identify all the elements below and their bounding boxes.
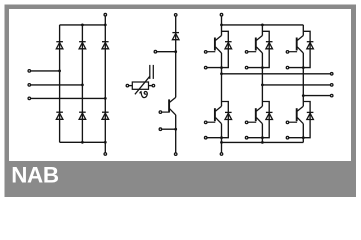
node rectifier DC- rail junction: [81, 141, 84, 144]
node rectifier DC+ stub junction: [104, 24, 107, 27]
terminal AC input L1: [28, 70, 31, 73]
terminal aux emitter E22: [245, 136, 248, 139]
terminal inverter DC+: [220, 13, 223, 16]
thermistor sense lead a: [149, 65, 151, 79]
wire AC input L3: [31, 97, 106, 99]
terminal phase output V: [330, 84, 333, 87]
diode D12 (freewheel, bottom U): [225, 112, 232, 119]
wire chopper emitter line: [175, 115, 177, 153]
terminal thermistor pin 1: [126, 84, 128, 87]
wire rectifier leg 1: [59, 25, 61, 142]
terminal thermistor pin 2: [152, 84, 155, 87]
thermistor sense lead b: [152, 65, 154, 79]
wire emitter to DC- rail U: [221, 124, 223, 143]
wire diode branch / aux emitter bottom V: [247, 102, 270, 138]
diode D4 (rectifier bottom arm): [56, 112, 63, 119]
wire phase W collector drop: [302, 25, 304, 36]
wire phase W output: [303, 95, 330, 97]
wire phase U midpoint line: [221, 53, 223, 106]
wire rectifier leg 3: [104, 25, 106, 142]
wire emitter to DC- rail W: [302, 124, 304, 143]
wire rectifier DC- rail: [60, 141, 106, 143]
wire inverter DC- rail: [222, 141, 304, 143]
transistor Q31 (top IGBT W): [289, 36, 303, 54]
wire inverter DC+ rail: [222, 24, 304, 26]
node phase U output junction: [220, 72, 223, 75]
transistor Q11 (top IGBT U): [207, 36, 221, 54]
diode D22 (freewheel, bottom V): [266, 112, 273, 119]
terminal gate G31: [286, 51, 289, 54]
terminal inverter DC-: [220, 153, 223, 156]
wire phase W midpoint line: [302, 53, 304, 106]
wire diode branch / aux emitter bottom W: [288, 102, 311, 138]
terminal aux emitter E11: [204, 66, 207, 69]
diode D21 (freewheel, top V): [266, 42, 273, 49]
terminal gate G22: [245, 121, 248, 124]
diode D6 (rectifier bottom arm): [102, 112, 109, 119]
diode D11 (freewheel, top U): [225, 42, 232, 49]
diode D3 (rectifier top arm): [102, 42, 109, 49]
transistor Q32 (bottom IGBT W): [289, 106, 303, 124]
thermistor R1 body: [132, 82, 148, 89]
wire rectifier DC- stub: [104, 142, 106, 152]
wire emitter to DC- rail V: [261, 124, 263, 143]
transistor Q7 (brake chopper IGBT): [162, 97, 176, 115]
node AC L1 junction: [58, 70, 61, 73]
wire inverter DC+ stub: [221, 16, 223, 25]
node chopper aux emitter junction: [174, 128, 177, 131]
terminal AC input L2: [28, 84, 31, 87]
diode D5 (rectifier bottom arm): [79, 112, 86, 119]
node AC L2 junction: [81, 84, 84, 87]
node phase V output junction: [261, 84, 264, 87]
terminal aux emitter E31: [286, 66, 289, 69]
wire phase V output: [262, 84, 330, 86]
node AC L3 junction: [104, 97, 107, 100]
node aux emitter junction bottom V: [261, 136, 264, 139]
node aux emitter junction bottom U: [220, 136, 223, 139]
wire inverter DC- stub: [221, 142, 223, 152]
wire phase V collector drop: [261, 25, 263, 36]
svg-text:NAB: NAB: [11, 162, 59, 187]
wire phase U collector drop: [221, 25, 223, 36]
wire diode branch / aux emitter top V: [247, 31, 270, 67]
node aux emitter junction top W: [302, 66, 305, 69]
module outline frame: [5, 5, 357, 198]
terminal AC input L3: [28, 97, 31, 100]
node phase W output junction: [302, 94, 305, 97]
node inverter DC+ rail junction: [261, 24, 264, 27]
wire rectifier leg 2: [81, 25, 83, 142]
diode D1 (rectifier top arm): [56, 42, 63, 49]
terminal rectifier DC+: [104, 13, 107, 16]
node aux emitter junction top V: [261, 66, 264, 69]
node inverter DC- stub junction: [220, 141, 223, 144]
terminal aux emitter E32: [286, 136, 289, 139]
terminal chopper tap: [154, 50, 157, 53]
terminal chopper aux emitter E7: [159, 128, 162, 131]
node aux emitter junction bottom W: [302, 136, 305, 139]
wire thermistor right lead: [149, 85, 152, 87]
terminal gate G21: [245, 51, 248, 54]
wire diode branch / aux emitter top W: [288, 31, 311, 67]
terminal gate G12: [204, 121, 207, 124]
transistor Q12 (bottom IGBT U): [207, 106, 221, 124]
node rectifier DC+ rail junction: [81, 24, 84, 27]
wire chopper tap branch: [157, 51, 176, 53]
terminal gate G32: [286, 121, 289, 124]
wire chopper collector line: [175, 16, 177, 97]
terminal phase output U: [330, 73, 333, 76]
transistor Q22 (bottom IGBT V): [248, 106, 262, 124]
terminal chopper DC+: [174, 14, 177, 17]
node inverter DC- rail junction: [261, 141, 264, 144]
terminal gate G11: [204, 51, 207, 54]
diode D2 (rectifier top arm): [79, 42, 86, 49]
terminal rectifier DC-: [104, 153, 107, 156]
transistor Q21 (top IGBT V): [248, 36, 262, 54]
wire diode branch / aux emitter top U: [206, 31, 229, 67]
node rectifier DC- stub junction: [104, 141, 107, 144]
wire diode branch / aux emitter bottom U: [206, 102, 229, 138]
wire AC input L2: [31, 84, 83, 86]
wire rectifier DC+ rail: [60, 24, 106, 26]
terminal chopper emitter out: [174, 153, 177, 156]
diode D31 (freewheel, top W): [307, 42, 314, 49]
wire phase U output: [222, 73, 331, 75]
terminal aux emitter E12: [204, 136, 207, 139]
wire rectifier DC+ stub: [104, 16, 106, 25]
wire phase V midpoint line: [261, 53, 263, 106]
terminal chopper gate G7: [159, 111, 162, 114]
node chopper tap junction: [174, 50, 177, 53]
wire chopper aux emitter branch: [162, 128, 176, 130]
diode D32 (freewheel, bottom W): [307, 112, 314, 119]
diode D7 (chopper freewheel): [172, 33, 179, 40]
wire thermistor variability arrow: [135, 76, 150, 94]
wire thermistor left lead: [129, 85, 132, 87]
node aux emitter junction top U: [220, 66, 223, 69]
node inverter DC+ stub junction: [220, 24, 223, 27]
thermistor theta label: [140, 91, 147, 97]
terminal aux emitter E21: [245, 66, 248, 69]
terminal phase output W: [330, 94, 333, 97]
wire AC input L1: [31, 70, 60, 72]
